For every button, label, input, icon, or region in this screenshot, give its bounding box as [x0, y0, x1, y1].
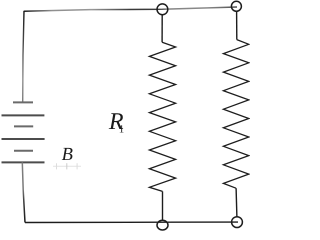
- faint crop mark line: [53, 165, 81, 167]
- node top right terminal: [231, 1, 241, 11]
- resistor R1: [149, 42, 175, 191]
- battery B plate long 1: [2, 114, 45, 116]
- wire top from battery across nodes: [24, 7, 237, 11]
- battery B plate short 3: [14, 150, 33, 152]
- battery B plate short 2: [14, 125, 33, 127]
- battery B plate long 2: [2, 138, 45, 140]
- wire node to resistor R1: [161, 15, 163, 43]
- svg-text:1: 1: [119, 123, 125, 135]
- wire resistor R2 to bottom node: [235, 188, 238, 217]
- wire node to resistor R2: [236, 11, 238, 39]
- wire battery to bottom: [22, 162, 25, 222]
- svg-text:B: B: [62, 145, 73, 165]
- node bottom left terminal: [157, 220, 168, 230]
- faint crop tick 3: [76, 163, 78, 169]
- wire resistor R1 to bottom node: [162, 191, 164, 220]
- faint crop tick 2: [66, 163, 68, 169]
- node top left terminal: [157, 4, 168, 15]
- faint crop tick 1: [56, 163, 58, 169]
- battery B plate short 1: [13, 101, 33, 103]
- node bottom right terminal: [232, 217, 243, 228]
- resistor R2: [223, 40, 248, 189]
- battery B plate long 3: [2, 161, 45, 163]
- wire bottom: [25, 221, 238, 223]
- wire left vertical: [23, 11, 24, 103]
